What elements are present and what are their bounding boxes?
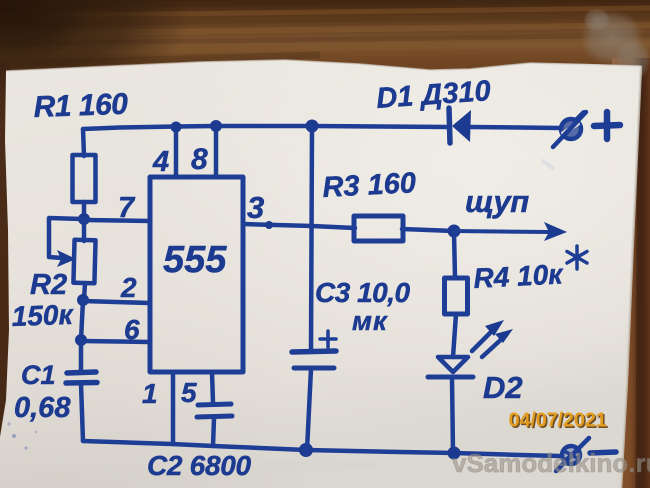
resistor R3 — [354, 216, 403, 241]
label pin 4 — [152, 146, 169, 178]
capacitor C2 plates — [197, 404, 232, 417]
capacitor C3 plates — [292, 351, 336, 368]
node: ground rail D2 junction — [448, 447, 461, 460]
label pin 1 — [142, 378, 158, 409]
label D1 value — [375, 75, 491, 115]
node C: pin 6 / C1 junction — [75, 334, 87, 346]
label pin 7 — [118, 192, 136, 224]
wire: C2 to ground rail — [213, 418, 214, 446]
plus terminal slash — [553, 112, 586, 147]
svg-text:8: 8 — [191, 143, 208, 176]
wire: top positive rail from R1 corner to D1 — [83, 126, 448, 129]
svg-text:2: 2 — [120, 272, 137, 303]
wire: node B to node C — [81, 300, 83, 340]
svg-text:150к: 150к — [11, 299, 75, 332]
svg-text:мк: мк — [352, 306, 388, 336]
wire: D2 to ground rail — [452, 378, 453, 453]
wire: R3 to probe node — [402, 229, 454, 231]
probe arrowhead — [544, 222, 567, 241]
asterisk rating mark — [567, 246, 587, 269]
label C1 — [21, 360, 56, 390]
wire: pin 4 lead — [174, 127, 179, 177]
node: top rail pin 4 junction — [171, 122, 182, 133]
label D2 — [483, 370, 523, 405]
label C1 value — [14, 392, 71, 424]
wire: pin 2 lead — [83, 301, 150, 303]
D2 light arrow 1 — [472, 320, 504, 351]
node: top rail pin 8 junction — [210, 120, 222, 132]
D2 light arrow 2 — [482, 329, 513, 357]
svg-text:555: 555 — [163, 239, 227, 281]
label R3 value — [322, 167, 417, 204]
wire: C1 to bottom rail corner — [81, 384, 83, 441]
svg-text:R3 160: R3 160 — [322, 167, 417, 204]
diode D1 cathode bar — [449, 108, 450, 143]
wire: C3 top lead from top rail — [311, 127, 312, 351]
svg-text:0,68: 0,68 — [14, 392, 71, 424]
svg-text:R2: R2 — [30, 269, 67, 301]
potentiometer R2 body — [73, 240, 95, 284]
label R1 value — [33, 88, 129, 124]
resistor R4 — [445, 278, 468, 314]
wire: pin 3 output lead to R3 — [243, 224, 355, 228]
wire: C3 bottom lead to ground rail — [307, 369, 311, 450]
svg-text:5: 5 — [181, 377, 197, 408]
wire: bottom ground rail — [83, 441, 560, 456]
wire: probe output arrow shaft — [454, 231, 548, 232]
label R2 — [30, 269, 67, 301]
label pin 2 — [120, 272, 137, 303]
node D: probe / R4 junction — [448, 225, 461, 238]
label 555 — [163, 239, 227, 281]
label C2 value — [147, 450, 251, 481]
label probe (shchup) — [465, 184, 529, 219]
plus terminal circle — [561, 119, 581, 139]
node A: R1 / R2 / pin 7 junction — [78, 213, 90, 225]
wire: R1 bottom lead to node A — [82, 202, 87, 219]
svg-text:C1: C1 — [21, 360, 56, 390]
label R2 value 150k — [11, 299, 75, 332]
capacitor C1 plates — [66, 372, 97, 383]
op-amp U1: 555 timer IC body — [150, 177, 243, 372]
wire: pin 7 lead — [84, 220, 149, 221]
R2 wiper arrowhead — [57, 250, 76, 267]
minus terminal slash — [556, 438, 589, 471]
wire: pin 5 lead — [212, 372, 213, 403]
diode D1 triangle — [452, 110, 471, 142]
node: ground rail C3 junction — [299, 443, 313, 457]
wire: R4 to D2 — [453, 314, 456, 357]
label pin 8 — [191, 143, 208, 176]
minus sign — [590, 452, 616, 453]
wire: R1 top lead — [83, 129, 84, 156]
watermark vSamodelkino.ru — [452, 448, 650, 478]
photodiode D2 triangle — [438, 357, 468, 372]
label pin 5 — [181, 377, 197, 408]
C3 polarity plus mark — [320, 331, 336, 347]
svg-text:6: 6 — [124, 314, 140, 345]
label R4 value — [473, 258, 565, 294]
svg-text:1: 1 — [142, 378, 158, 409]
svg-text:vSamodelkino.ru: vSamodelkino.ru — [452, 448, 650, 478]
wire: pin 8 lead — [214, 127, 219, 177]
wire: pin 6 lead — [81, 341, 150, 342]
wire: R2 bottom lead to node B — [84, 283, 85, 300]
label pin 3 — [247, 190, 264, 225]
svg-text:7: 7 — [118, 192, 136, 224]
date stamp — [509, 410, 609, 434]
label pin 6 — [124, 314, 140, 345]
photodiode D2 cathode bar — [428, 375, 473, 380]
svg-text:R4 10к: R4 10к — [473, 258, 565, 294]
resistor R1 — [73, 155, 96, 202]
wire: top rail from D1 cathode to + terminal — [471, 127, 560, 128]
svg-text:C2 6800: C2 6800 — [147, 450, 251, 481]
node B: R2 / pin 2 junction — [77, 294, 89, 306]
wire: R2 wiper loop — [49, 218, 82, 258]
node: top rail C3 branch junction — [306, 120, 319, 133]
plus sign — [594, 112, 620, 139]
node: ink dot on pin 3 lead — [265, 221, 273, 229]
wire: node C to C1 — [79, 340, 84, 370]
svg-text:щуп: щуп — [465, 184, 529, 219]
svg-text:R1 160: R1 160 — [33, 88, 129, 124]
label C3 units mk — [352, 306, 388, 336]
svg-text:3: 3 — [247, 190, 264, 225]
label C3 value — [315, 277, 410, 308]
wire: R2 top lead — [82, 219, 87, 241]
minus terminal circle — [562, 446, 580, 464]
wire: pin 1 lead to ground rail — [171, 372, 176, 444]
svg-text:D2: D2 — [483, 370, 523, 405]
wire: R4 top lead — [454, 232, 455, 278]
svg-text:04/07/2021: 04/07/2021 — [509, 410, 607, 432]
svg-text:4: 4 — [152, 146, 169, 178]
svg-text:C3 10,0: C3 10,0 — [315, 277, 410, 308]
